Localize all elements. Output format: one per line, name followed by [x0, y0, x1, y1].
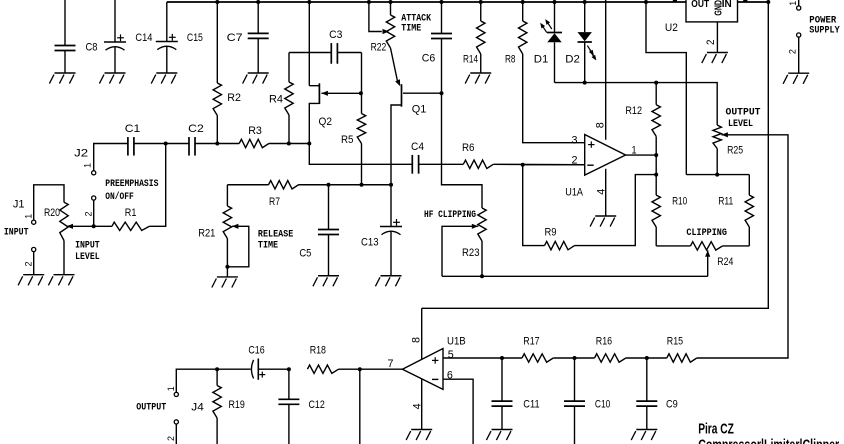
svg-text:5: 5 — [448, 349, 454, 361]
svg-text:R21: R21 — [198, 227, 215, 239]
svg-text:R14: R14 — [463, 54, 478, 66]
svg-text:D2: D2 — [565, 54, 580, 66]
svg-text:SUPPLY: SUPPLY — [809, 25, 840, 37]
svg-text:IN: IN — [722, 0, 732, 10]
svg-text:OUTPUT: OUTPUT — [726, 107, 761, 119]
svg-text:C6: C6 — [422, 53, 436, 65]
svg-text:C3: C3 — [329, 29, 342, 41]
svg-text:2: 2 — [83, 212, 94, 217]
svg-text:INPUT: INPUT — [4, 227, 29, 239]
svg-text:HF CLIPPING: HF CLIPPING — [424, 209, 476, 221]
svg-text:C9: C9 — [666, 399, 678, 411]
svg-text:TIME: TIME — [401, 23, 421, 35]
svg-text:R8: R8 — [505, 54, 516, 66]
svg-text:R18: R18 — [310, 345, 326, 357]
svg-text:4: 4 — [412, 403, 424, 409]
svg-text:OUT: OUT — [691, 0, 709, 10]
svg-text:C2: C2 — [188, 123, 204, 135]
svg-text:C12: C12 — [309, 399, 325, 411]
svg-text:R1: R1 — [125, 207, 137, 219]
svg-text:LEVEL: LEVEL — [75, 251, 100, 263]
svg-text:Q2: Q2 — [319, 116, 333, 128]
svg-text:R6: R6 — [462, 142, 475, 154]
svg-text:2: 2 — [166, 436, 177, 441]
svg-text:J2: J2 — [74, 147, 88, 159]
svg-text:INPUT: INPUT — [75, 240, 100, 252]
svg-text:C13: C13 — [361, 237, 379, 249]
svg-text:7: 7 — [388, 358, 394, 370]
svg-text:4: 4 — [595, 189, 607, 195]
svg-text:2: 2 — [572, 155, 578, 167]
svg-text:R2: R2 — [227, 92, 241, 104]
svg-text:C11: C11 — [523, 399, 539, 411]
svg-text:C10: C10 — [595, 399, 610, 411]
svg-text:J1: J1 — [13, 198, 25, 210]
svg-text:8: 8 — [411, 337, 423, 343]
svg-text:C8: C8 — [86, 42, 98, 54]
svg-text:R15: R15 — [667, 335, 683, 347]
svg-text:R17: R17 — [523, 335, 539, 347]
svg-text:Compressor|Limiter|Clipper: Compressor|Limiter|Clipper — [698, 438, 839, 444]
svg-text:1: 1 — [788, 1, 799, 6]
svg-text:LEVEL: LEVEL — [728, 118, 753, 130]
svg-text:R24: R24 — [717, 256, 733, 268]
svg-text:1: 1 — [83, 163, 94, 168]
svg-text:R12: R12 — [625, 105, 642, 117]
svg-text:U2: U2 — [665, 22, 678, 34]
svg-text:8: 8 — [595, 122, 607, 128]
svg-text:J4: J4 — [191, 402, 204, 414]
svg-text:Q1: Q1 — [412, 103, 427, 115]
svg-text:R20: R20 — [44, 207, 60, 219]
svg-text:CLIPPING: CLIPPING — [686, 227, 727, 239]
svg-text:Pira CZ: Pira CZ — [698, 420, 734, 437]
svg-text:C4: C4 — [411, 141, 424, 153]
svg-text:1: 1 — [166, 386, 177, 391]
svg-text:2: 2 — [787, 49, 798, 54]
svg-text:R9: R9 — [545, 227, 557, 239]
svg-text:R4: R4 — [269, 94, 283, 106]
svg-text:1: 1 — [632, 144, 637, 156]
svg-text:OUTPUT: OUTPUT — [136, 401, 166, 413]
svg-text:R23: R23 — [462, 247, 480, 259]
svg-text:2: 2 — [705, 40, 717, 46]
svg-text:R25: R25 — [727, 144, 743, 156]
svg-text:C5: C5 — [299, 248, 311, 260]
svg-text:R19: R19 — [229, 399, 245, 411]
svg-text:1: 1 — [23, 214, 34, 219]
svg-text:R3: R3 — [248, 125, 262, 137]
svg-text:C15: C15 — [187, 32, 203, 44]
svg-text:TIME: TIME — [258, 240, 278, 252]
svg-text:RELEASE: RELEASE — [258, 228, 293, 240]
svg-text:R10: R10 — [672, 196, 687, 208]
svg-text:U1B: U1B — [447, 335, 466, 347]
svg-text:R11: R11 — [718, 196, 733, 208]
svg-text:C1: C1 — [125, 123, 141, 135]
svg-text:R16: R16 — [596, 335, 612, 347]
svg-text:C7: C7 — [227, 32, 243, 44]
svg-text:R7: R7 — [269, 196, 280, 208]
svg-text:3: 3 — [572, 134, 578, 146]
svg-text:U1A: U1A — [565, 187, 583, 199]
svg-text:C14: C14 — [135, 32, 152, 44]
svg-text:ON/OFF: ON/OFF — [105, 191, 134, 203]
svg-text:2: 2 — [23, 262, 34, 267]
svg-text:PREEMPHASIS: PREEMPHASIS — [105, 178, 158, 190]
svg-text:D1: D1 — [534, 54, 549, 66]
svg-text:C16: C16 — [248, 345, 264, 357]
svg-text:R22: R22 — [371, 42, 387, 54]
svg-text:R5: R5 — [341, 134, 354, 146]
